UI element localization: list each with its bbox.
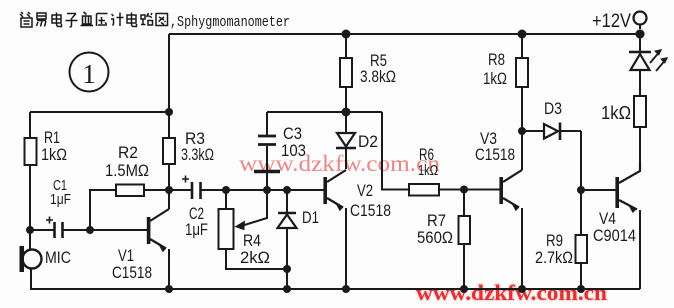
node R7 bottom on ground rail (460, 285, 468, 293)
svg-text:D3: D3 (544, 99, 562, 118)
wire MIC top lead (29, 230, 31, 249)
wire C1 left lead (30, 229, 54, 231)
svg-text:C9014: C9014 (593, 226, 636, 245)
wire left rail (30, 111, 169, 113)
svg-text:C1518: C1518 (112, 263, 152, 282)
svg-text:R8: R8 (488, 50, 505, 69)
node on ground rail below D1 (283, 285, 291, 293)
wire mid rail C3 to R5/D2 node (267, 111, 382, 113)
node R4 top (222, 186, 230, 194)
title (Chinese pseudo-glyphs) (20, 12, 168, 27)
wire R1 top lead (29, 112, 31, 138)
microphone MIC (20, 246, 72, 272)
resistor R8 (483, 34, 528, 131)
svg-text:2.7kΩ: 2.7kΩ (535, 248, 573, 267)
svg-text:1μF: 1μF (185, 220, 208, 239)
resistor R3 (163, 112, 214, 190)
svg-text:V2: V2 (357, 181, 373, 200)
svg-text:R2: R2 (118, 143, 138, 162)
svg-text:1kΩ: 1kΩ (483, 69, 507, 88)
figure label circle 1 (70, 53, 109, 92)
resistor 1k for LED (601, 70, 646, 163)
svg-text:www.dzkfw.com.cn: www.dzkfw.com.cn (416, 280, 607, 305)
resistor R5 (340, 34, 396, 112)
svg-text:1kΩ: 1kΩ (41, 145, 67, 164)
svg-text:103: 103 (281, 141, 306, 160)
node C1 / R1 / MIC (26, 226, 34, 234)
wire R2 left riser (90, 190, 116, 230)
node V1 base / C1 / R2 (86, 226, 94, 234)
svg-text:2kΩ: 2kΩ (240, 248, 270, 267)
node R7 top (460, 186, 468, 194)
node V1 emitter on ground rail (165, 285, 173, 293)
wire bottom ground rail (30, 288, 640, 290)
wire V4 base wire (581, 189, 616, 191)
node R4/D1 bottom junction (283, 265, 291, 273)
transistor V3 (475, 129, 522, 289)
svg-text:1.5MΩ: 1.5MΩ (105, 161, 149, 180)
svg-text:3.3kΩ: 3.3kΩ (181, 145, 214, 164)
capacitor C1 (46, 177, 71, 238)
wire R1 bottom lead (29, 165, 31, 230)
diode D3 (522, 99, 581, 140)
transistor V2 (325, 170, 391, 289)
svg-text:,Sphygmomanometer: ,Sphygmomanometer (170, 14, 290, 31)
svg-text:+12V: +12V (592, 11, 631, 32)
node V3 emitter on ground rail (518, 285, 526, 293)
wire left drop from top rail (168, 34, 170, 112)
resistor R9 (535, 190, 587, 289)
svg-text:560Ω: 560Ω (417, 228, 453, 247)
resistor R2 (116, 185, 144, 197)
node D1 top (283, 186, 291, 194)
transistor V4 (593, 163, 640, 289)
svg-text:1kΩ: 1kΩ (418, 162, 438, 179)
node V2 emitter on ground rail (342, 285, 350, 293)
svg-text:D2: D2 (358, 132, 378, 151)
svg-text:C1518: C1518 (350, 201, 391, 220)
node R8 top on +12V rail (518, 30, 527, 39)
node V1 collector / R3 / R2 / C2 (165, 186, 173, 194)
potentiometer R4 (219, 190, 288, 269)
node R5 top on +12V rail (342, 30, 351, 39)
svg-text:1: 1 (82, 59, 96, 89)
node junction left rail / R3 column (165, 108, 173, 116)
node R4 wiper (263, 186, 271, 194)
wire V1 base wire (90, 229, 147, 231)
wire D3 to R9/V4 (580, 131, 582, 190)
wire C2 left lead (169, 189, 192, 191)
resistor R6 (409, 145, 439, 196)
svg-text:C1518: C1518 (475, 145, 515, 164)
title English: Sphygmomanometer (170, 14, 290, 31)
wire base line V2 (201, 189, 325, 191)
terminal +12V (592, 11, 647, 39)
LED (629, 34, 668, 71)
capacitor C2 (182, 176, 208, 240)
node LED top on +12V rail (636, 30, 645, 39)
wire MIC bottom lead (30, 268, 32, 289)
svg-text:MIC: MIC (45, 248, 71, 267)
svg-text:1μF: 1μF (50, 191, 71, 208)
node V4 base / R9 (577, 186, 585, 194)
wire drop to R6 (382, 112, 409, 190)
wire top +12V rail (169, 33, 640, 35)
svg-text:3.8kΩ: 3.8kΩ (360, 67, 396, 86)
transistor V1 (112, 190, 169, 289)
wire R2 right lead (144, 189, 169, 191)
node V3 collector / R8 / D3 (518, 127, 526, 135)
resistor R1 (25, 138, 37, 165)
wire C1 right lead (63, 229, 91, 231)
svg-text:D1: D1 (302, 208, 319, 227)
diode D1 (278, 190, 320, 269)
capacitor C3 (254, 112, 306, 190)
diode D2 (336, 112, 378, 169)
svg-text:1kΩ: 1kΩ (601, 103, 631, 123)
resistor R7 (417, 190, 470, 289)
wire D1 bottom to rail (286, 269, 288, 289)
node R5 bottom / D2 anode (342, 108, 351, 117)
wire R6 to V3 base (439, 189, 500, 191)
node R9 bottom on ground rail (577, 285, 585, 293)
